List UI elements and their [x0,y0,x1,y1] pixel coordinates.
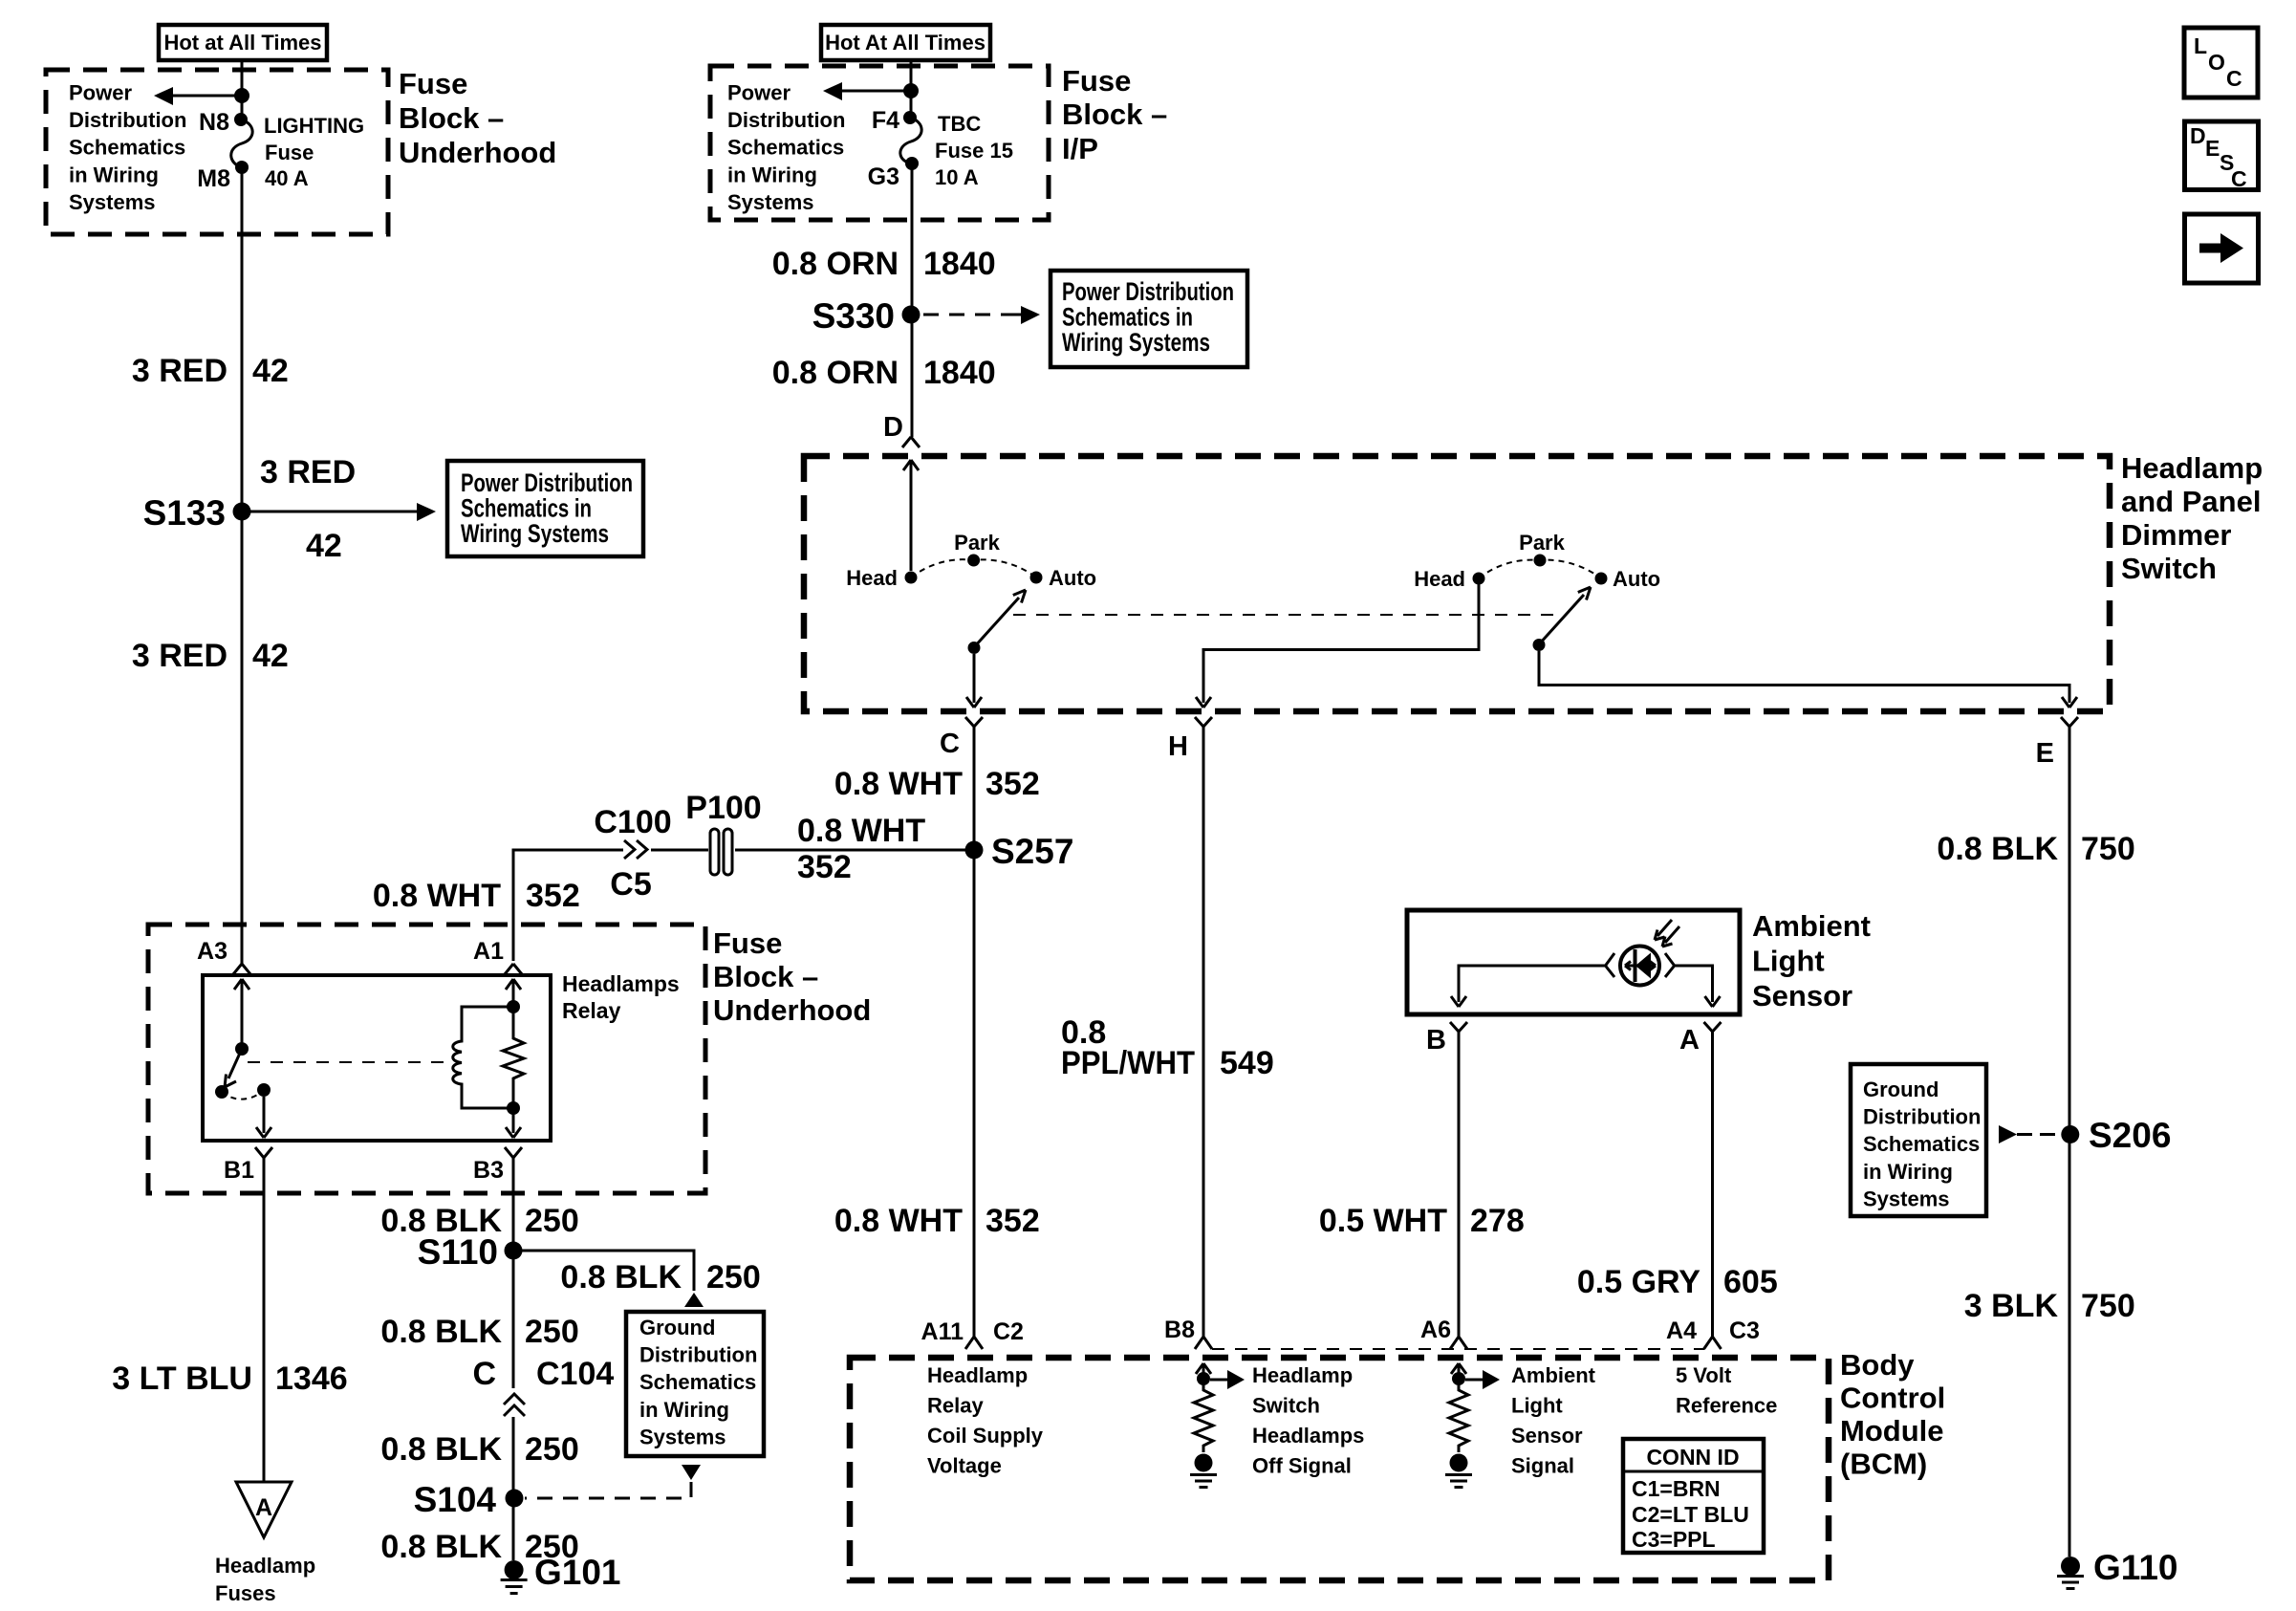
svg-text:42: 42 [252,638,289,674]
svg-text:250: 250 [706,1259,761,1295]
power feed label box "Hot at All Times" (left) [159,25,327,60]
ref box: ground distribution schematics (left) [626,1312,764,1456]
wire relay A1 feed (corner to C100) [513,850,623,961]
relay switch pivot [235,1042,249,1056]
wire coil to B3 with arrow [506,1108,521,1138]
switch 2 contact Park [1534,555,1547,567]
ground G101 [501,1553,621,1594]
svg-text:S133: S133 [143,493,226,533]
resistor pull (B8) [1194,1379,1213,1452]
svg-text:750: 750 [2081,831,2135,867]
svg-text:0.8 WHT: 0.8 WHT [834,766,963,802]
wire S110 branch to ground distribution [513,1251,694,1291]
splice S110 [505,1242,523,1260]
photodiode circle [1620,947,1659,986]
switch 1 contact Auto [1030,572,1043,584]
svg-text:Hot At All Times: Hot At All Times [825,31,986,54]
svg-text:A3: A3 [197,938,227,965]
node junction above fuse F4 [903,83,919,98]
arrow to signal name [1465,1379,1483,1382]
svg-text:3 LT BLU: 3 LT BLU [112,1361,252,1397]
svg-text:3 RED: 3 RED [132,638,227,674]
wire B to BCM A6 [1458,1044,1461,1337]
wire B1 to headlamp fuses triangle [263,1168,266,1482]
relay contact (right, to B1) [257,1083,271,1097]
wire A to BCM A4 [1711,1044,1714,1337]
svg-text:42: 42 [252,353,289,389]
wire arrow to power distribution (right) [839,90,911,93]
switch 1 dashed travel arc [911,559,1036,577]
arrow out of ground box (down triangle) [682,1465,701,1480]
connector P100 grommet [685,790,761,875]
resistor pull (A6) [1449,1379,1468,1452]
fuse F TBC Fuse 15 element [900,118,921,163]
connector chevron at D [902,437,920,447]
svg-text:Park: Park [1519,531,1565,555]
svg-text:352: 352 [526,878,580,914]
svg-text:C: C [940,729,960,759]
svg-text:0.8 WHT: 0.8 WHT [834,1203,963,1239]
connector B chevron [1450,1022,1467,1044]
svg-text:0.8 WHT: 0.8 WHT [797,813,925,849]
wire H down to BCM B8 [1202,739,1205,1337]
photodiode symbol [1635,953,1651,979]
svg-text:0.8 BLK: 0.8 BLK [380,1314,502,1350]
svg-text:0.8 BLK: 0.8 BLK [380,1431,502,1468]
svg-text:B8: B8 [1164,1317,1195,1343]
relay coil winding [453,1007,513,1108]
connector B1 chevron [255,1147,272,1168]
ground inside BCM (A6) [1450,1454,1468,1472]
svg-text:352: 352 [986,1203,1040,1239]
svg-text:605: 605 [1723,1264,1778,1300]
svg-text:1840: 1840 [923,246,996,282]
svg-text:S206: S206 [2089,1116,2171,1155]
wire C100 to P100 [651,849,708,852]
fuse block I/P dashed box [710,66,1049,220]
svg-text:Hot at All Times: Hot at All Times [163,31,321,54]
wire hot feed down from Hot box [241,60,244,120]
svg-text:CONN ID: CONN ID [1646,1445,1739,1469]
wire B3 down to S110/C104/S104/G101 [512,1168,515,1560]
svg-text:0.8 BLK: 0.8 BLK [560,1259,682,1295]
headlamps relay box [203,975,551,1141]
connector E chevron [2061,717,2078,739]
svg-text:250: 250 [525,1431,579,1468]
splice S104 [506,1490,524,1508]
wire switch 2 pivot to E with arrow [1539,651,2077,708]
switch 1 contact Park [967,555,980,567]
switch 2 wiper arm with arrow to Auto [1539,587,1591,644]
relay contact (left) [215,1085,228,1099]
splice S257 [965,841,984,860]
wire 3 RED 42 (fuse to S133) [241,167,244,964]
switch 2 contact Head [1473,573,1485,585]
svg-text:M8: M8 [197,165,230,192]
svg-text:P100: P100 [685,790,761,826]
relay arrow in at A3 [234,979,249,1049]
svg-text:549: 549 [1220,1045,1274,1081]
connector chevron at A1 [505,964,522,974]
node B8 input [1197,1372,1210,1385]
relay coil suppression resistor [503,1007,524,1108]
svg-text:0.8 ORN: 0.8 ORN [772,355,899,391]
svg-text:Auto: Auto [1613,567,1660,591]
wire sensor left leg to B with arrow [1451,966,1606,1007]
CONN ID table [1623,1439,1764,1553]
svg-text:Auto: Auto [1049,566,1096,590]
BCM input B8: arrow up [1196,1363,1211,1379]
switch 1 wiper arm with arrow to Auto [974,590,1026,647]
connector C chevron [965,717,983,739]
svg-text:C3: C3 [1729,1317,1760,1344]
wire arrow into switch from D [903,460,919,571]
svg-text:0.5 WHT: 0.5 WHT [1319,1203,1447,1239]
svg-text:278: 278 [1470,1203,1525,1239]
connector C100 C5 double chevron [624,840,647,859]
ambient light sensor box [1407,910,1740,1014]
wire P100 to S257 [735,849,967,852]
connector chevrons around photodiode [1606,953,1675,977]
arrow into branch (up triangle) [684,1293,704,1307]
fuse block underhood dashed box (relay) [148,925,705,1193]
wire contact to B1 with arrow [256,1097,271,1138]
wire switch 1 pivot down to C with arrow [966,654,982,708]
svg-text:S104: S104 [414,1480,497,1519]
connector chevron at B8 [1195,1317,1212,1349]
ground G110 [2057,1548,2177,1589]
arrow to signal name [1210,1379,1227,1382]
light rays into photodiode [1655,920,1679,947]
svg-text:B1: B1 [224,1157,254,1184]
node junction above fuse N8 [234,88,249,103]
wire arrow to power distribution (left) [170,95,242,98]
node coil top junction [507,1000,520,1013]
svg-text:0.5 GRY: 0.5 GRY [1577,1264,1700,1300]
svg-text:B: B [1426,1025,1446,1056]
wire dashed arrow S330 to ref box [923,314,1011,316]
svg-text:3 BLK: 3 BLK [1964,1288,2059,1324]
svg-text:0.8 ORN: 0.8 ORN [772,246,899,282]
relay contact dashed arc [222,1090,264,1099]
svg-text:A: A [255,1494,272,1521]
svg-text:H: H [1168,731,1188,762]
svg-text:1346: 1346 [275,1361,348,1397]
connector chevron at A3 [233,964,250,974]
wire switch 2 Head contact to H with arrow [1196,584,1479,708]
svg-text:G3: G3 [868,163,899,190]
ref box: ground distribution schematics (right) [1851,1064,1986,1216]
wire C down through S257 to BCM A11 [973,739,976,1337]
relay link dashed line to coil [248,1061,451,1063]
svg-text:C5: C5 [610,866,651,903]
connector H chevron [1195,717,1212,739]
svg-text:E: E [2036,738,2054,769]
wire E down to S206 and G110 [2069,739,2071,1557]
svg-text:0.8 BLK: 0.8 BLK [380,1529,502,1565]
wire 0.8 ORN 1840 (fuse to S330) [911,163,914,437]
relay switch arm with arrow [225,1049,242,1087]
headlamp and panel dimmer switch dashed box [804,456,2110,711]
connector C104 double chevron [504,1394,525,1416]
svg-text:A: A [1679,1025,1700,1056]
svg-text:O: O [2208,50,2225,75]
svg-text:B3: B3 [473,1157,504,1184]
ref box: power distribution schematics in wiring systems (at S133) [447,461,643,556]
svg-text:G110: G110 [2093,1548,2177,1587]
wire arrow S133 to ref box [242,511,421,513]
svg-text:Head: Head [846,566,898,590]
svg-text:Park: Park [954,531,1000,555]
svg-text:A11: A11 [921,1318,964,1345]
svg-text:750: 750 [2081,1288,2135,1324]
svg-text:3 RED: 3 RED [260,454,356,490]
svg-text:C104: C104 [536,1356,614,1392]
node coil bottom junction [507,1101,520,1115]
switch 1 pivot [968,642,981,654]
wire dashed S104 branch [525,1482,691,1498]
svg-text:A1: A1 [473,938,504,965]
connector chevron at A11/C2 [965,1317,983,1349]
page icon box arrow [2185,214,2259,283]
switch 2 dashed travel arc [1479,560,1601,578]
page icon box LOC [2184,28,2258,98]
connector A triangle to headlamp fuses [236,1482,292,1537]
svg-text:1840: 1840 [923,355,996,391]
svg-text:0.8 WHT: 0.8 WHT [373,878,501,914]
svg-text:C100: C100 [594,804,671,840]
svg-text:S110: S110 [418,1232,498,1272]
ref box: power distribution schematics in wiring systems (at S330) [1051,271,1247,367]
splice S206 [2061,1125,2079,1143]
svg-text:F4: F4 [872,107,899,134]
wire hot feed down (right) [910,60,913,118]
relay arrow in at A1 [506,979,521,1007]
svg-text:E: E [2205,136,2220,161]
svg-text:3 RED: 3 RED [132,353,227,389]
page icon box DESC [2185,121,2259,191]
svg-text:250: 250 [525,1314,579,1350]
splice S330 [902,306,921,324]
switch 1 contact Head [905,572,918,584]
connector C1 thin dashed line [1212,1348,1704,1350]
switch 2 contact Auto [1595,573,1608,585]
svg-text:A4: A4 [1666,1317,1697,1344]
BCM input A6: arrow up [1451,1363,1466,1379]
connector A chevron [1704,1022,1722,1044]
svg-text:A6: A6 [1420,1317,1451,1343]
fuse block underhood dashed box (top left) [46,70,388,234]
svg-text:352: 352 [986,766,1040,802]
svg-text:0.8 BLK: 0.8 BLK [1937,831,2058,867]
svg-text:250: 250 [525,1203,579,1239]
connector chevron at A6 [1450,1317,1467,1349]
power feed label box "Hot At All Times" (right) [821,25,990,60]
body control module dashed box [850,1358,1829,1580]
node A6 input [1452,1372,1465,1385]
connector chevron at A4/C3 [1704,1317,1722,1349]
connector B3 chevron [505,1147,522,1168]
svg-text:42: 42 [306,528,342,564]
fuse F LIGHTING 40A element [231,120,252,167]
svg-text:L: L [2194,33,2207,58]
svg-text:352: 352 [797,849,852,885]
svg-text:C: C [2231,166,2247,191]
arrow out of ground box (right triangle) and dashed link to S206 [1999,1125,2017,1143]
svg-text:S330: S330 [812,296,895,336]
svg-text:PPL/WHT: PPL/WHT [1061,1045,1195,1081]
svg-text:D: D [2190,123,2206,148]
svg-text:C2: C2 [993,1318,1024,1345]
svg-text:N8: N8 [199,109,229,136]
mechanical link dashed line between switch arms [1013,614,1560,616]
svg-text:S257: S257 [991,832,1073,871]
ground inside BCM (B8) [1195,1454,1213,1472]
svg-text:Head: Head [1414,567,1465,591]
splice S133 [233,503,251,521]
wire sensor right leg to A with arrow [1675,966,1721,1007]
svg-text:G101: G101 [534,1553,621,1592]
svg-text:D: D [883,412,903,443]
svg-text:C: C [472,1356,496,1392]
svg-text:C: C [2226,66,2242,91]
switch 2 pivot [1533,639,1546,651]
